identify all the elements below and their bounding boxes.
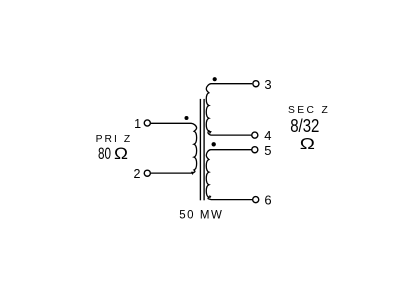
winding arrow at S1 bottom xyxy=(209,131,212,135)
terminal 2 xyxy=(144,170,150,176)
svg-text:5: 5 xyxy=(264,143,271,158)
terminal 1 xyxy=(144,120,150,126)
svg-text:3: 3 xyxy=(264,77,271,92)
terminal 6 xyxy=(253,197,259,203)
transformer core xyxy=(199,99,201,200)
svg-text:6: 6 xyxy=(264,193,271,208)
terminal 4 xyxy=(252,132,258,138)
svg-text:8/32: 8/32 xyxy=(290,116,319,136)
svg-text:80: 80 xyxy=(98,145,111,163)
svg-text:2: 2 xyxy=(133,167,140,181)
secondary winding S1 (wires from terminal 3 and terminal 4) xyxy=(206,84,252,135)
primary winding L1 (wires from terminal 1 and terminal 2) xyxy=(151,123,197,173)
polarity dot primary xyxy=(185,116,189,120)
winding arrow at S2 bottom xyxy=(209,195,212,198)
polarity dot secondary S1 xyxy=(213,77,217,81)
svg-text:Ω: Ω xyxy=(114,145,128,163)
terminal 5 xyxy=(252,147,258,153)
svg-text:Ω: Ω xyxy=(300,136,315,153)
terminal 3 xyxy=(253,81,259,87)
svg-text:4: 4 xyxy=(264,128,271,143)
svg-text:SEC Z: SEC Z xyxy=(288,105,328,116)
secondary winding S2 (wires from terminal 5 and terminal 6) xyxy=(206,150,252,200)
polarity dot secondary S2 xyxy=(212,142,216,146)
svg-text:1: 1 xyxy=(134,117,141,131)
winding arrow at primary bottom xyxy=(191,172,194,175)
